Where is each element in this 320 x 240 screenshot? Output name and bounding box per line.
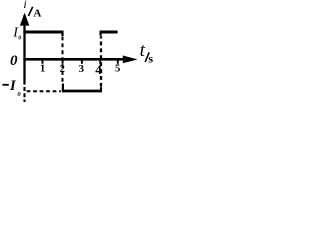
- svg-text:0: 0: [18, 36, 21, 42]
- wire: dashed vertical at t=2: [62, 37, 64, 84]
- tick t=5: [117, 60, 119, 64]
- x-axis: [23, 58, 128, 61]
- label -I0 at -I0 level : minus sign: [2, 84, 8, 86]
- tick t=1: [42, 60, 44, 64]
- wire: high segment 0..2s at +I0: [23, 31, 63, 34]
- wire: high segment 4..5s at +I0: [100, 31, 118, 34]
- background: [0, 0, 153, 102]
- wire: low segment 2..4s at -I0: [62, 90, 102, 93]
- dashed -I0 level line from axis to t=2: [27, 90, 61, 92]
- wire: solid corner at t=4 bottom: [100, 87, 102, 91]
- tick t=4: [99, 60, 101, 64]
- svg-text:1: 1: [40, 64, 45, 75]
- y-axis: [23, 15, 25, 85]
- svg-text:s: s: [148, 51, 153, 65]
- label slash of i/A: [28, 7, 32, 16]
- label slash of t/s: [145, 52, 149, 62]
- wire: solid corner drop at t=2 top: [61, 31, 63, 36]
- wire: solid corner rise at t=4 top: [99, 31, 101, 36]
- tick t=3: [81, 60, 83, 64]
- svg-text:A: A: [33, 8, 41, 20]
- x-axis arrowhead: [123, 56, 138, 64]
- svg-text:2: 2: [60, 64, 65, 75]
- wire: solid corner at t=2 bottom: [62, 84, 64, 92]
- svg-text:5: 5: [115, 64, 120, 75]
- wire: dashed vertical at t=4: [100, 36, 102, 87]
- svg-text:0: 0: [10, 53, 18, 69]
- y-axis arrowhead: [20, 13, 29, 26]
- svg-text:i: i: [23, 0, 26, 11]
- svg-text:3: 3: [79, 63, 85, 75]
- svg-text:t: t: [140, 40, 146, 61]
- y-axis dashed continuation below axis: [23, 87, 25, 103]
- tick t=2: [62, 60, 64, 64]
- svg-text:4: 4: [95, 62, 102, 77]
